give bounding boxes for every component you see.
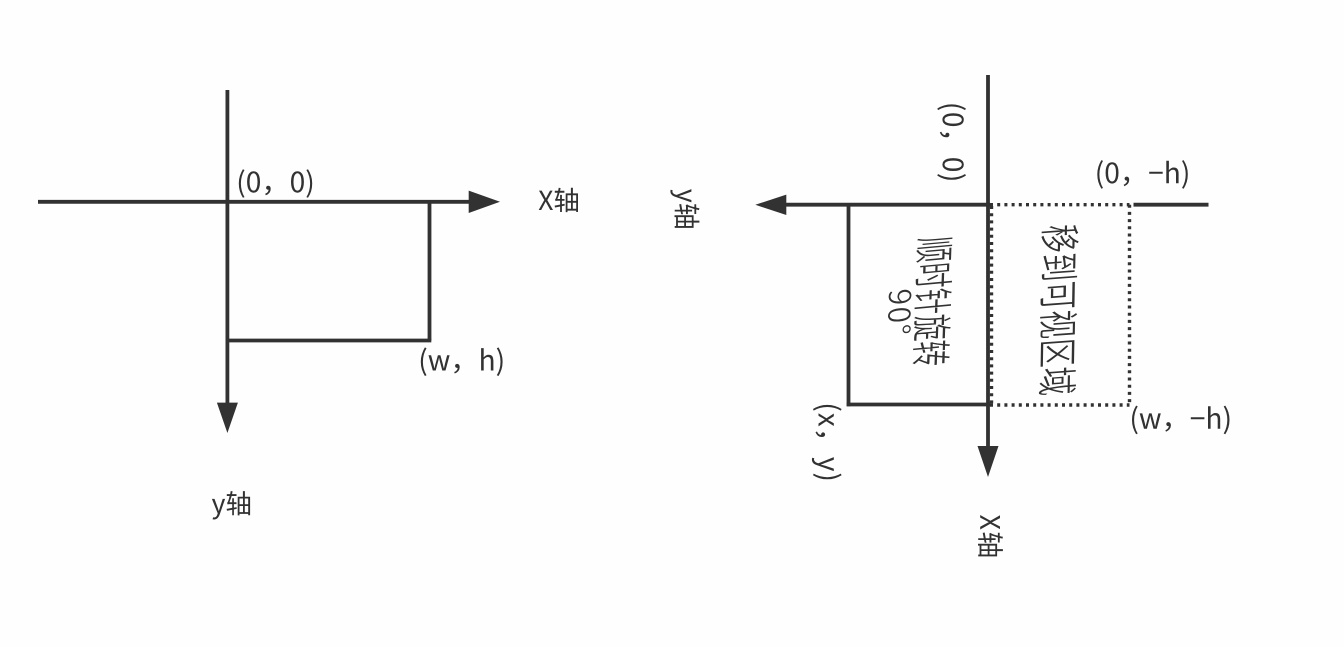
annotation move-to-visible rotated — [1039, 224, 1079, 395]
left diagram: rectangle right edge — [428, 202, 432, 341]
left diagram: rectangle bottom edge — [226, 339, 431, 343]
label (w,h) — [421, 347, 503, 376]
annotation clockwise-rotate rotated — [912, 236, 954, 367]
right diagram: solid rect left edge — [847, 205, 851, 407]
right diagram: solid rect bottom edge — [847, 403, 990, 407]
label (x,y) rotated — [812, 405, 842, 479]
left diagram: y-axis arrowhead — [217, 403, 238, 433]
right diagram: y-axis (leftward) wire — [784, 203, 990, 207]
left diagram: X-axis wire — [38, 200, 472, 204]
right diagram: X-axis (downward) wire — [986, 75, 990, 451]
label X-axis left — [539, 188, 578, 212]
label X-axis right rotated — [978, 515, 1003, 556]
left diagram: X-axis arrowhead — [469, 191, 500, 213]
label (0,0) left — [239, 169, 312, 198]
right diagram: y-axis arrowhead — [755, 195, 786, 215]
label y-axis left — [212, 491, 250, 520]
label (0,-h) — [1097, 160, 1188, 189]
right diagram: dotted rect bottom edge — [990, 403, 1130, 406]
annotation 90deg rotated — [887, 289, 912, 335]
right diagram: X-axis arrowhead — [978, 446, 999, 477]
right diagram: dotted rect left edge — [990, 206, 993, 405]
right diagram: dotted rect top edge — [990, 203, 1130, 206]
label (w,-h) — [1132, 406, 1230, 435]
left diagram: y-axis (downward) wire — [225, 90, 229, 407]
right diagram: dotted rect right edge — [1128, 205, 1131, 405]
label (0,0) right rotated — [937, 104, 966, 179]
right diagram: axis solid segment beyond dotted box — [1134, 203, 1209, 207]
label y-axis right rotated — [670, 189, 699, 228]
